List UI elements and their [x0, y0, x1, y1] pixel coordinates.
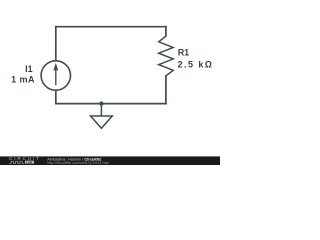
svg-text:CIRCUIT: CIRCUIT [9, 156, 41, 161]
ground symbol triangle [91, 116, 113, 128]
wire top-right vertical [165, 27, 167, 36]
watermark bar [0, 156, 220, 165]
CircuitLab logo waveform [9, 161, 24, 163]
wire bottom-left vertical [55, 91, 57, 104]
CircuitLab logo LAB badge [25, 161, 34, 164]
svg-text:I1: I1 [25, 64, 33, 74]
current source I1 circle [41, 61, 70, 90]
wire bottom horizontal [56, 103, 166, 105]
svg-text:LAB: LAB [26, 160, 32, 164]
junction node dot [99, 101, 103, 105]
ground stub wire [100, 104, 102, 116]
resistor R1 zigzag [159, 36, 174, 76]
wire bottom-right vertical [165, 76, 167, 104]
current source I1 arrow [53, 63, 58, 85]
svg-text:R1: R1 [178, 48, 190, 58]
svg-text:1 mA: 1 mA [11, 74, 35, 84]
wire top horizontal [56, 26, 166, 28]
svg-text:http://circuitlab.com/c4r57y7e: http://circuitlab.com/c4r57y7e9337dw/ [47, 161, 110, 165]
wire top-left vertical [55, 27, 57, 61]
